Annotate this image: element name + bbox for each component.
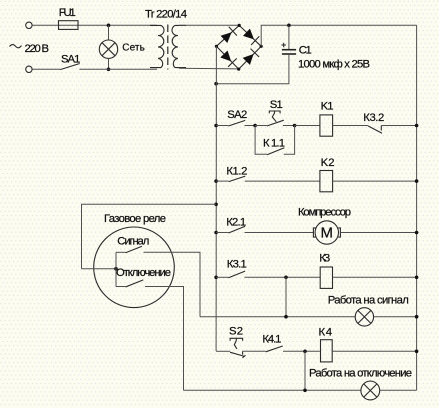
button S1 blade [267,120,284,126]
svg-text:К1.2: К1.2 [226,165,247,177]
svg-text:220 В: 220 В [25,43,50,55]
wire K1 to К3.2 [333,125,369,127]
svg-text:1000 мкф x 25В: 1000 мкф x 25В [298,59,370,71]
wire К2.1 to motor [245,232,314,234]
diode VD1 top-left [221,32,232,43]
wire right rail vertical [416,25,418,390]
wire К3.2 to rail [381,125,416,127]
wire row2 start [216,180,229,182]
wire К3 to rail [333,276,417,278]
wire lamp to rail [374,316,417,318]
node row1 bus tap [214,124,218,128]
terminal X2 (bottom input) [26,66,32,72]
capacitor C1 [282,49,296,51]
svg-text:К4: К4 [319,326,333,338]
wire row3 start [216,232,228,234]
gas relay circle [94,227,175,308]
svg-text:К4.1: К4.1 [262,334,281,346]
wire row5 start [216,350,230,352]
diode VD3 bottom-left [220,51,231,62]
wire bottom rail left [32,68,60,70]
wire К4 to rail [333,350,417,352]
node signal row drop [284,315,288,319]
wire row4 start [216,276,228,278]
node row5 rail [415,350,419,354]
node row5 drop tap [303,350,307,354]
wire S1 to node [283,125,295,127]
wire top rail left [32,24,157,26]
svg-text:Работа на отключение: Работа на отключение [309,368,412,380]
switch SA2 blade [228,120,245,126]
node К1.1 branch right [293,124,297,128]
wire into relay [82,268,117,270]
svg-text:К3.2: К3.2 [363,112,384,124]
wire row5 drop [304,351,306,390]
svg-text:Сигнал: Сигнал [117,236,149,248]
wire row4 drop to signal lamp row [285,277,287,316]
wire К3.1 to К3 [245,276,320,278]
svg-text:Работа на сигнал: Работа на сигнал [328,294,409,306]
node row1 rail [415,124,419,128]
wire to S1 [255,125,267,127]
contact К3.1 blade [229,271,246,278]
wire lamp to rail corner [380,389,417,391]
node minus return on bus [214,82,218,86]
wire relay internal bus [115,252,117,286]
node row2 rail [415,179,419,183]
node bottom row drop [303,389,307,393]
svg-text:C1: C1 [299,44,312,56]
svg-text:К3.1: К3.1 [227,258,247,270]
node row3 rail [415,231,419,235]
node bridge bottom vertex [237,68,240,71]
node gas relay bus tap [214,203,218,207]
contact Сигнал [116,251,126,253]
node row2 bus tap [214,179,218,183]
svg-text:S2: S2 [229,325,243,337]
svg-text:S1: S1 [270,99,283,111]
wire gas relay feed [82,204,217,268]
wire secondary top to bridge [179,24,239,26]
node row4 lamp tap [284,276,288,280]
wire Сигнал out [144,252,201,316]
svg-text:Сеть: Сеть [122,43,145,54]
node row4 bus tap [214,276,218,280]
wire SA1 to transformer [79,68,157,70]
node bridge top vertex [238,24,241,27]
fuse FU1 [59,21,79,30]
svg-text:Отключение: Отключение [116,267,171,279]
node row3 bus tap [214,231,218,235]
switch SA1 [60,64,79,70]
relay coil K2 [320,171,333,192]
wire SA2 to node [245,125,256,127]
svg-text:SA2: SA2 [227,109,247,121]
lamp Сеть [99,40,117,58]
wire left bus vertical [215,46,217,351]
diode VD2 top-right [243,29,254,40]
wire signal lamp row [200,316,355,318]
polarity plus [281,43,286,48]
wire К1.1 branch left drop [255,126,267,155]
button S2 actuator [230,338,243,341]
motor M1 [315,221,338,244]
svg-text:K1: K1 [321,100,334,112]
motor M1 terminals [313,228,315,237]
wire К1.1 branch right drop [284,126,295,155]
wire C1 top lead [288,25,290,49]
lamp HL3 работа на отключение [361,381,380,400]
wire C1 bottom lead and return [216,54,289,84]
node bridge right vertex [260,45,263,48]
svg-text:SA1: SA1 [61,53,80,65]
diode VD4 bottom-right [243,54,254,65]
contact К1.2 blade [229,176,246,182]
transformer T1 primary winding [150,25,164,67]
node relay internal [114,267,118,271]
wire lamp drop bottom [108,58,110,69]
bridge rectifier frame [216,25,261,69]
transformer core [167,25,169,70]
lamp HL2 работа на сигнал [355,308,373,326]
wire S2 to К4.1 [243,350,266,352]
wire node to K1 [295,125,320,127]
svg-text:K2: K2 [321,157,335,169]
button S2 blade NC [230,352,245,356]
wire bottom lamp row [184,389,361,391]
svg-text:К3: К3 [319,253,330,265]
contact Отключение [116,286,126,288]
transformer T1 secondary winding [172,25,186,67]
contact К3.2 blade NC [368,126,382,133]
wire К4.1 to К4 [283,350,320,352]
svg-text:М: М [321,225,334,242]
wire Отключение out [145,287,184,391]
wire motor to rail [340,232,416,234]
wire К1.2 to K2 [245,180,320,182]
node row4 rail [415,276,419,280]
node signal row rail [415,315,419,319]
relay coil К4 [321,340,333,362]
svg-text:Tr 220/14: Tr 220/14 [145,8,187,20]
relay coil K1 [320,115,333,136]
button S1 actuator [269,111,280,113]
node junction bottom-lamp [107,68,111,72]
svg-text:Компрессор: Компрессор [298,207,351,219]
wire secondary bottom to bridge [179,67,239,70]
node junction top-lamp [107,24,111,28]
node C1 top tap [287,24,291,28]
node К1.1 branch left [253,124,257,128]
node bridge left vertex [215,45,218,48]
contact К2.1 blade [229,226,246,233]
svg-text:Газовое реле: Газовое реле [104,213,166,225]
relay coil К3 [320,267,332,288]
svg-text:FU1: FU1 [59,7,76,19]
wire K2 to rail [333,180,417,182]
terminal X1 (top input) [26,22,32,28]
wire row1 start [216,125,228,127]
contact К4.1 blade [266,346,283,352]
wire lamp drop top [108,25,110,40]
contact К1.1 blade [267,148,284,155]
AC symbol ~ [10,45,22,48]
svg-text:К 1.1: К 1.1 [263,137,285,149]
wire DC plus rail [261,25,416,46]
